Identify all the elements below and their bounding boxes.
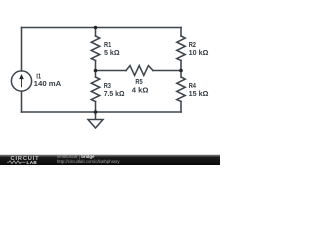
svg-text:I1: I1 — [36, 74, 41, 81]
svg-text:R5: R5 — [135, 79, 142, 86]
resistor R2 — [177, 36, 185, 61]
svg-text:7.5 kΩ: 7.5 kΩ — [104, 91, 125, 98]
node mid right — [179, 69, 183, 73]
resistor R4 — [177, 77, 185, 102]
wire mid horizontal right — [153, 70, 181, 72]
wire left lower — [21, 91, 23, 112]
node top middle — [94, 26, 98, 30]
wire right upper — [180, 28, 182, 37]
node bottom middle — [94, 110, 98, 114]
svg-text:LAB: LAB — [27, 160, 38, 165]
wire mid horizontal left — [96, 70, 127, 72]
wire middle mid stub — [95, 61, 97, 78]
svg-text:140 mA: 140 mA — [34, 81, 62, 88]
svg-text:5 kΩ: 5 kΩ — [104, 50, 120, 57]
current source arrow — [20, 78, 23, 87]
wire right mid stub — [180, 61, 182, 78]
wire bottom — [22, 111, 182, 113]
wire right lower — [180, 102, 182, 113]
node mid middle — [94, 69, 98, 73]
svg-text:http://circuitlab.com/c/bathph: http://circuitlab.com/c/bathphssry — [57, 159, 120, 164]
ground — [88, 112, 103, 128]
footer bar — [0, 154, 220, 165]
wire top — [22, 27, 182, 29]
wire left upper — [21, 28, 23, 71]
svg-text:10 kΩ: 10 kΩ — [189, 50, 209, 57]
svg-text:4 kΩ: 4 kΩ — [132, 88, 149, 95]
svg-text:R3: R3 — [104, 83, 111, 90]
wire middle top stub — [95, 28, 97, 37]
svg-text:R2: R2 — [189, 42, 196, 49]
wire middle bottom stub — [95, 102, 97, 113]
svg-text:15 kΩ: 15 kΩ — [189, 91, 209, 98]
svg-text:R4: R4 — [189, 83, 196, 90]
svg-text:R1: R1 — [104, 42, 111, 49]
resistor R5 — [126, 66, 153, 76]
resistor R1 — [91, 36, 99, 61]
current source I1 — [11, 71, 31, 91]
resistor R3 — [91, 77, 99, 102]
